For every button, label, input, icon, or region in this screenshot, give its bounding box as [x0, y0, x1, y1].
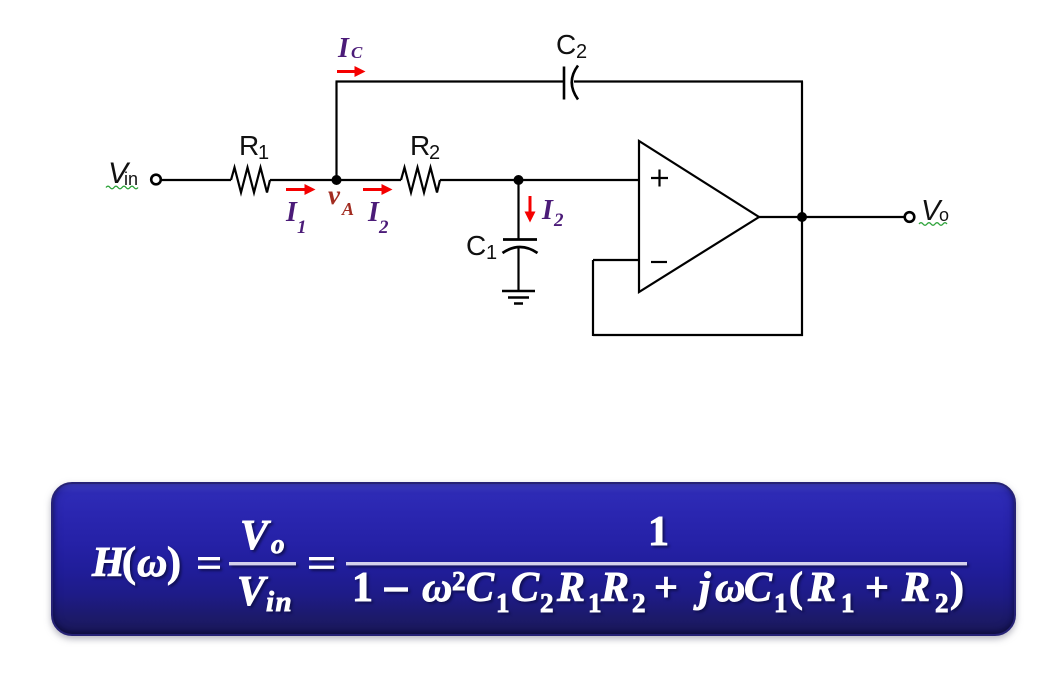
svg-text:+: +: [654, 565, 678, 611]
svg-text:2: 2: [576, 41, 587, 63]
svg-text:ω: ω: [422, 565, 452, 611]
svg-text:2: 2: [632, 588, 646, 618]
svg-text:C: C: [466, 565, 495, 611]
svg-text:1: 1: [774, 588, 788, 618]
svg-text:v: v: [328, 180, 341, 210]
svg-text:1: 1: [297, 217, 307, 238]
svg-text:R: R: [410, 130, 430, 161]
svg-text:R: R: [239, 130, 259, 161]
svg-text:2: 2: [378, 217, 389, 238]
svg-text:2: 2: [540, 588, 554, 618]
svg-text:j: j: [693, 565, 711, 611]
svg-text:ω: ω: [715, 565, 745, 611]
svg-text:C: C: [351, 43, 363, 62]
svg-text:1: 1: [258, 142, 269, 164]
svg-text:C: C: [556, 29, 576, 60]
svg-text:C: C: [511, 565, 540, 611]
svg-text:2: 2: [935, 588, 949, 618]
svg-text:R: R: [556, 565, 585, 611]
svg-text:H: H: [91, 540, 126, 586]
svg-text:1: 1: [486, 242, 497, 264]
svg-text:R: R: [600, 565, 629, 611]
svg-text:R: R: [807, 565, 836, 611]
svg-text:1: 1: [841, 588, 855, 618]
svg-text:I: I: [541, 195, 554, 226]
svg-text:I: I: [337, 33, 350, 64]
svg-text:C: C: [744, 565, 773, 611]
svg-text:1: 1: [648, 509, 669, 555]
svg-text:+: +: [865, 565, 889, 611]
svg-text:V: V: [240, 513, 271, 559]
svg-text:2: 2: [429, 142, 440, 164]
svg-text:ω: ω: [137, 540, 167, 586]
svg-text:1: 1: [496, 588, 510, 618]
svg-text:): ): [950, 565, 964, 611]
svg-text:o: o: [271, 529, 285, 559]
svg-text:(: (: [789, 565, 803, 611]
svg-text:R: R: [901, 565, 930, 611]
svg-text:C: C: [466, 230, 486, 261]
svg-text:1: 1: [352, 565, 373, 611]
svg-text:): ): [167, 540, 181, 586]
svg-text:2: 2: [553, 210, 564, 231]
svg-text:o: o: [939, 205, 949, 225]
svg-text:V: V: [237, 569, 268, 615]
svg-text:2: 2: [452, 566, 466, 596]
svg-text:1: 1: [588, 588, 602, 618]
svg-text:A: A: [341, 199, 354, 219]
svg-text:(: (: [122, 540, 136, 586]
svg-text:in: in: [266, 586, 293, 618]
